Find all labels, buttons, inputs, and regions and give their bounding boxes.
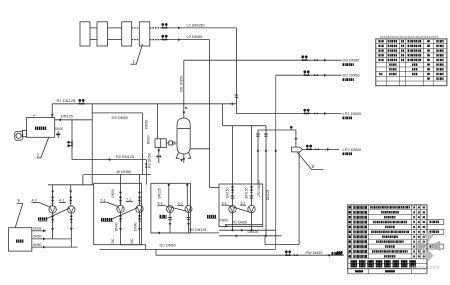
svg-text:R2 DN50: R2 DN50 bbox=[148, 153, 152, 168]
pipe DS vertical at vessel bbox=[183, 60, 185, 118]
svg-text:DN150: DN150 bbox=[226, 187, 230, 198]
pipe L1 vertical drop bbox=[235, 28, 237, 114]
pipe blower outlet DN125 bbox=[55, 119, 92, 121]
valve pair on L2 bbox=[161, 35, 167, 40]
node dot above silencer bbox=[290, 126, 293, 129]
pipe header y184 bbox=[48, 184, 94, 186]
pipe riser P6-2 bbox=[186, 185, 188, 206]
valve pair on LP2 bbox=[306, 145, 312, 150]
valve pair on DS bbox=[301, 55, 307, 60]
pipe header y125.7 bbox=[223, 125, 266, 127]
svg-text:L2 DN50: L2 DN50 bbox=[187, 34, 204, 39]
arrow riser LP2 bbox=[257, 149, 260, 152]
pipe R1 riser into blower bbox=[51, 104, 53, 118]
tank name text bbox=[16, 240, 18, 243]
label PW chinese bbox=[332, 252, 334, 255]
pipe ejector to vessel bbox=[166, 142, 169, 144]
svg-text:LP2 DN50: LP2 DN50 bbox=[343, 147, 362, 152]
valve pair on LP1 bbox=[303, 109, 309, 114]
svg-text:DC DN50: DC DN50 bbox=[160, 243, 176, 247]
check dots on PW bbox=[294, 254, 296, 256]
pipe P6-2 down bbox=[188, 213, 190, 233]
leader 4-1 b bbox=[46, 208, 70, 219]
svg-text:DN50: DN50 bbox=[111, 189, 115, 197]
svg-text:DN125: DN125 bbox=[248, 230, 259, 234]
pipe R2 DN125 horizontal bbox=[72, 159, 146, 161]
G1 name text bbox=[38, 217, 40, 220]
svg-text:R1 DN50: R1 DN50 bbox=[233, 221, 247, 225]
leader 4-1 a bbox=[39, 202, 51, 207]
pump P6-1 bbox=[167, 206, 174, 213]
pipe between F1-2 and F1-3 lower bbox=[108, 39, 122, 41]
pump P7-1 bbox=[117, 205, 124, 212]
svg-text:DN125: DN125 bbox=[158, 188, 162, 198]
arrow on DS bbox=[324, 59, 327, 62]
svg-text:DN40: DN40 bbox=[115, 222, 119, 231]
pipe L2 DN50 horizontal bbox=[150, 39, 160, 41]
pipe riser P3-2 bbox=[251, 126, 253, 206]
check dots on DS bbox=[314, 59, 316, 61]
pipe between F1-1 and F1-2 lower bbox=[90, 39, 97, 41]
label MU left of table bbox=[337, 251, 339, 255]
watermark compass logo bbox=[417, 231, 440, 261]
arrow on L1 bbox=[178, 27, 181, 30]
pipe vessel outlet right bbox=[190, 148, 209, 150]
check dots on DC bbox=[314, 74, 316, 76]
filter vessel F1-3 bbox=[122, 22, 132, 46]
pipe riser P3-1 bbox=[232, 126, 234, 206]
check dots on LP2 bbox=[315, 149, 317, 151]
valve pair on R1 bbox=[78, 99, 84, 104]
svg-text:LP1 DN50: LP1 DN50 bbox=[343, 111, 362, 116]
blower body bbox=[27, 118, 55, 138]
pipe riser P4-1b bbox=[70, 185, 72, 206]
pipe R1 DN125 horizontal bbox=[52, 103, 237, 105]
tick riser LP2 bbox=[256, 134, 260, 136]
pipe tank outlet DN50 a bbox=[32, 238, 72, 240]
pipe P3-1 down bbox=[232, 213, 234, 230]
pipe PW DN50 bbox=[156, 254, 344, 256]
arrow G4 manifold bbox=[225, 225, 229, 228]
pipe P7-2 down bbox=[139, 213, 141, 245]
vessel bottom drain bbox=[183, 154, 185, 163]
pipe LP1 DN50 horizontal bbox=[236, 113, 341, 115]
pipe W DN50 horizontal bbox=[84, 174, 151, 176]
tick on L1 drop bbox=[235, 95, 239, 97]
pipe G2 manifold step bbox=[145, 245, 147, 250]
arrow riser DN125 bbox=[265, 149, 268, 152]
svg-text:R2 DN125: R2 DN125 bbox=[190, 228, 207, 232]
table bottom sub-row bbox=[347, 269, 349, 274]
pipe branch y112.9 bbox=[92, 112, 142, 114]
label DC chinese bbox=[343, 78, 345, 81]
label LP2 chinese bbox=[343, 152, 345, 155]
pipe under G4 a bbox=[219, 229, 276, 231]
pipe silencer drain bbox=[298, 152, 300, 245]
silencer body bbox=[292, 147, 303, 152]
pipe riser P7-1 bbox=[120, 175, 122, 206]
svg-text:3-1: 3-1 bbox=[222, 201, 227, 205]
pipe tank outlet DN32 bbox=[32, 230, 46, 232]
pump P6-2 bbox=[185, 206, 192, 213]
svg-text:7-1: 7-1 bbox=[100, 198, 106, 202]
vessel T1 body bbox=[177, 118, 190, 154]
svg-text:7-2: 7-2 bbox=[126, 198, 132, 202]
valve dots ejector drain bbox=[156, 156, 158, 158]
BOM table bottom-right grid bbox=[348, 205, 427, 269]
pipe ejector drain bbox=[158, 148, 160, 164]
pump P3-2 bbox=[248, 205, 255, 212]
pump P4-1a bbox=[49, 206, 56, 213]
tick riser DN125 bbox=[264, 134, 268, 136]
arrow on DC riser bbox=[274, 149, 277, 152]
riser DN125 x266 bbox=[265, 126, 267, 236]
valve pair on L1 bbox=[161, 23, 167, 28]
blower motor circle bbox=[16, 133, 21, 138]
svg-text:DN150: DN150 bbox=[245, 187, 249, 198]
svg-text:DN20: DN20 bbox=[147, 135, 151, 144]
arrow on LP1 bbox=[324, 112, 327, 115]
leader 6-2 bbox=[164, 205, 187, 211]
node dot P7-1 bbox=[119, 191, 121, 193]
pipe P4-1a suction bbox=[52, 213, 54, 239]
valve pair on x72 vertical bbox=[70, 142, 72, 145]
pump P4-1b bbox=[68, 206, 75, 213]
riser LP2 x258 bbox=[257, 130, 259, 184]
pipe between F1-3 and F1-4 lower bbox=[132, 39, 140, 41]
pipe P3-2 down bbox=[251, 213, 253, 230]
svg-text:DS DN50: DS DN50 bbox=[112, 115, 129, 120]
pipe P7-1 down bbox=[120, 213, 122, 245]
leader 7-1 bbox=[107, 202, 118, 206]
pipe G4 manifold bbox=[225, 224, 263, 226]
bottom sub-row text bbox=[355, 270, 363, 272]
node dot P6-1 bbox=[168, 184, 170, 186]
ejector body bbox=[155, 139, 166, 148]
vessel left leg bbox=[176, 153, 179, 159]
svg-text:4-1: 4-1 bbox=[59, 199, 65, 203]
legend table top-right grid bbox=[376, 39, 447, 86]
svg-text:4-1: 4-1 bbox=[32, 199, 38, 203]
legend table top-right text bbox=[378, 40, 380, 42]
pipe between F1-3 and F1-4 upper bbox=[132, 27, 140, 29]
arrow on L2 bbox=[178, 38, 181, 41]
pipe drop x222.6 bbox=[222, 104, 224, 126]
pipe PW step bbox=[155, 249, 157, 255]
svg-text:R1 DN125: R1 DN125 bbox=[57, 98, 76, 103]
svg-text:W DN50: W DN50 bbox=[117, 169, 133, 174]
svg-text:DS DN50: DS DN50 bbox=[178, 75, 183, 92]
pipe W left drop bbox=[82, 175, 84, 185]
faint header above table bbox=[380, 36, 382, 38]
pipe LP2 DN50 horizontal bbox=[303, 148, 340, 150]
svg-text:R2 DN125: R2 DN125 bbox=[116, 154, 134, 159]
pipe riser P4-1a bbox=[52, 185, 54, 206]
pipe L1 DN150 horizontal bbox=[150, 27, 160, 29]
leader 7-2 bbox=[112, 208, 138, 220]
pipe DC DN50 horizontal bbox=[276, 74, 342, 76]
svg-text:DS DN50: DS DN50 bbox=[343, 58, 361, 63]
pipe between F1-1 and F1-2 upper bbox=[90, 27, 97, 29]
pump P7-2 bbox=[136, 205, 143, 212]
svg-text:DN50: DN50 bbox=[145, 120, 149, 129]
check dots on LP1 bbox=[314, 113, 316, 115]
leader 3-2 bbox=[228, 205, 250, 212]
node dot P7-2 bbox=[138, 191, 140, 193]
svg-text:DN50: DN50 bbox=[33, 235, 42, 239]
label DS chinese bbox=[343, 63, 345, 66]
pipe into ejector top bbox=[157, 104, 159, 139]
G2 name text bbox=[101, 218, 103, 221]
svg-text:zhulong.com: zhulong.com bbox=[411, 265, 439, 271]
pipe riser P6-1 bbox=[168, 185, 170, 206]
pipe DC manifold bbox=[100, 248, 276, 250]
vessel inlet flag bbox=[185, 107, 188, 109]
pipe link DN125 riser to drain bbox=[264, 236, 266, 245]
leader line to label 5 bbox=[15, 204, 23, 228]
vessel right leg bbox=[188, 153, 191, 159]
arrow on DC bbox=[324, 74, 327, 77]
svg-text:DN32: DN32 bbox=[33, 227, 42, 231]
svg-text:DN125: DN125 bbox=[266, 190, 270, 200]
blower motor housing bbox=[15, 131, 23, 140]
svg-text:DN50: DN50 bbox=[220, 218, 229, 222]
pipe y187 stub bbox=[210, 187, 219, 189]
pipe P4-1b suction bbox=[70, 213, 72, 247]
pipe between F1-2 and F1-3 upper bbox=[108, 27, 122, 29]
pipe P6-1 down bbox=[169, 213, 171, 233]
blower name text bbox=[35, 127, 37, 130]
leader line to label 8 bbox=[297, 152, 324, 170]
svg-text:PW DN50: PW DN50 bbox=[306, 251, 323, 255]
filter vessel F1-2 bbox=[97, 22, 108, 46]
node dots under G4 b bbox=[235, 235, 237, 237]
blower motor flange bbox=[22, 130, 26, 136]
pipe L2 vertical drop bbox=[209, 40, 211, 188]
BOM table bottom-right text bbox=[349, 206, 352, 209]
pipe R2 vertical drop bbox=[145, 160, 147, 185]
valve pair on PW bbox=[285, 250, 291, 255]
pipe DC riser x275.7 bbox=[275, 75, 277, 249]
valve pair on DC bbox=[303, 70, 309, 75]
filter vessel F1-1 bbox=[80, 22, 90, 46]
tank box bbox=[9, 228, 32, 251]
svg-text:3-2: 3-2 bbox=[240, 201, 245, 205]
pipe DS DN50 horizontal bbox=[184, 59, 342, 61]
svg-text:LP2 DN050: LP2 DN050 bbox=[257, 180, 261, 197]
G3 name text bbox=[160, 215, 162, 218]
svg-text:L1 DN150: L1 DN150 bbox=[187, 23, 206, 28]
svg-text:DC: DC bbox=[130, 238, 134, 243]
svg-text:DN50: DN50 bbox=[33, 243, 42, 247]
pipe tank outlet DN50 b bbox=[32, 246, 78, 248]
node dot on R2 bbox=[108, 158, 110, 160]
svg-text:DC: DC bbox=[111, 238, 115, 243]
pipe silencer feed bbox=[295, 130, 297, 147]
svg-text:DN20: DN20 bbox=[55, 127, 63, 131]
drain valve DN20 under blower bbox=[57, 131, 59, 138]
G4 name text bbox=[207, 215, 209, 218]
pipe riser P7-2 bbox=[139, 175, 141, 206]
arrow on PW bbox=[327, 254, 330, 257]
leader line to label 1 bbox=[131, 44, 143, 64]
G3 enclosure box bbox=[151, 183, 191, 233]
pipe R1 vertical main bbox=[91, 104, 93, 185]
pump P3-1 bbox=[229, 205, 236, 212]
pipe under G4 b bbox=[219, 235, 282, 237]
G4 enclosure box bbox=[219, 184, 263, 227]
pipe G3 manifold bbox=[151, 232, 219, 234]
ejector coupling bbox=[169, 141, 173, 145]
pipe x142 drop bbox=[142, 113, 144, 175]
svg-text:DN40: DN40 bbox=[133, 222, 137, 231]
ejector inner line bbox=[160, 139, 162, 148]
pipe vertical x72 with valve bbox=[71, 120, 73, 160]
pipe G2 manifold bbox=[121, 244, 146, 246]
node dots under G4 bbox=[231, 229, 233, 231]
BOM table title band bbox=[348, 263, 427, 265]
G2 enclosure box bbox=[94, 183, 142, 244]
vessel liquid line bbox=[177, 128, 190, 130]
svg-text:DC DN50: DC DN50 bbox=[343, 73, 361, 78]
svg-text:DN125: DN125 bbox=[61, 114, 73, 118]
arrow on LP2 bbox=[327, 148, 330, 151]
leader line to label 2 bbox=[37, 137, 49, 158]
node dot P6-2 bbox=[186, 184, 188, 186]
filter vessel F1-4 bbox=[139, 22, 150, 46]
arrow above blower bbox=[33, 114, 36, 116]
label LP1 chinese bbox=[343, 117, 345, 120]
pipe branch y130 bbox=[258, 129, 296, 131]
